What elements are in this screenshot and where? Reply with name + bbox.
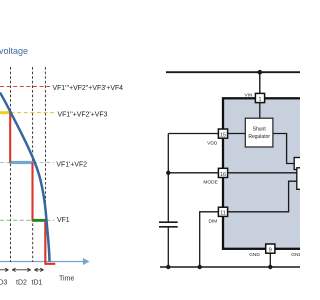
svg-text:1: 1 bbox=[259, 97, 262, 103]
node junction MODE tap bbox=[166, 171, 170, 175]
node interval arrow tD1 bbox=[34, 268, 43, 271]
node blue discharge curve bbox=[0, 93, 50, 262]
wire VIN drop to pin 1 bbox=[259, 72, 261, 95]
pin 1 bbox=[255, 93, 264, 103]
svg-text:11: 11 bbox=[220, 211, 226, 217]
wire pin15 to shunt regulator bbox=[223, 133, 246, 135]
wire capacitor to ground rail bbox=[167, 227, 169, 267]
node dashed vertical t1 bbox=[10, 67, 12, 262]
pin 11 bbox=[218, 207, 227, 217]
svg-text:Time: Time bbox=[59, 276, 74, 283]
node junction gnd-pin9 bbox=[268, 265, 272, 269]
wire VIN rail top bbox=[166, 71, 300, 73]
wire pin 9 to ground rail bbox=[269, 252, 271, 267]
wire pin16 across to right bbox=[223, 172, 299, 174]
svg-text:VF1'''+VF2''+VF3'+VF4: VF1'''+VF2''+VF3'+VF4 bbox=[53, 85, 124, 92]
svg-text:Shunt: Shunt bbox=[253, 127, 267, 133]
wire DIM left from pin 11 bbox=[200, 212, 219, 267]
wire MODE left from pin 16 bbox=[168, 172, 219, 174]
node level line VF4 red dashed bbox=[0, 86, 52, 88]
driver box B (cut at edge) bbox=[297, 168, 309, 190]
node level line VF3 yellow dashed bbox=[11, 112, 56, 114]
svg-text:VF1: VF1 bbox=[57, 217, 70, 224]
wire VDD left from pin 15 bbox=[168, 133, 219, 135]
node level line VF2 cyan dashed bbox=[0, 162, 54, 164]
svg-text:VIN: VIN bbox=[245, 92, 254, 98]
svg-text:VDD: VDD bbox=[207, 141, 218, 147]
svg-text:DIM: DIM bbox=[209, 219, 218, 225]
node step tread yellow bbox=[0, 111, 11, 114]
pin 16 bbox=[218, 168, 227, 178]
svg-text:GND: GND bbox=[249, 252, 260, 258]
wire ground rail bottom bbox=[160, 266, 300, 268]
driver box A (cut at edge) bbox=[294, 158, 306, 170]
node red staircase bbox=[10, 113, 55, 264]
IC U1 body bbox=[223, 98, 307, 249]
node junction VIN rail bbox=[258, 70, 263, 75]
svg-text:GND: GND bbox=[291, 252, 300, 258]
svg-text:tD1: tD1 bbox=[32, 280, 43, 287]
svg-text:VF1''+VF2'+VF3: VF1''+VF2'+VF3 bbox=[58, 111, 108, 118]
node junction cap-gnd bbox=[166, 265, 170, 269]
capacitor C1 bbox=[159, 222, 178, 227]
node dashed vertical t3 bbox=[44, 67, 46, 262]
svg-text:9: 9 bbox=[269, 248, 272, 254]
svg-text:MODE: MODE bbox=[203, 180, 217, 186]
svg-text:tD2: tD2 bbox=[16, 280, 27, 287]
svg-text:Regulator: Regulator bbox=[248, 134, 270, 140]
node level line VF1 green dashed bbox=[0, 219, 54, 221]
node interval arrow tD2 bbox=[12, 268, 30, 271]
wire time axis bbox=[0, 261, 84, 263]
wire pin11 to right riser bbox=[223, 181, 299, 212]
node step tread cyan bbox=[9, 161, 33, 164]
node time axis arrowhead bbox=[83, 258, 90, 265]
wire shunt regulator to driver box A bbox=[273, 134, 295, 164]
pin 15 bbox=[218, 129, 227, 139]
node interval arrow tD3 bbox=[0, 268, 8, 271]
wire pin1 to shunt regulator bbox=[259, 102, 261, 119]
svg-text:voltage: voltage bbox=[0, 46, 28, 56]
wire VDD branch down bbox=[167, 134, 169, 222]
op-amp U2 shunt regulator block bbox=[245, 118, 273, 147]
pin 9 bbox=[266, 244, 275, 254]
node dashed vertical t2 bbox=[32, 67, 34, 262]
node step tread green bbox=[32, 219, 46, 222]
svg-text:tD3: tD3 bbox=[0, 280, 8, 287]
svg-text:16: 16 bbox=[220, 172, 226, 178]
svg-text:15: 15 bbox=[220, 133, 226, 139]
svg-text:VF1'+VF2: VF1'+VF2 bbox=[56, 162, 87, 169]
node junction dim-gnd bbox=[198, 265, 202, 269]
